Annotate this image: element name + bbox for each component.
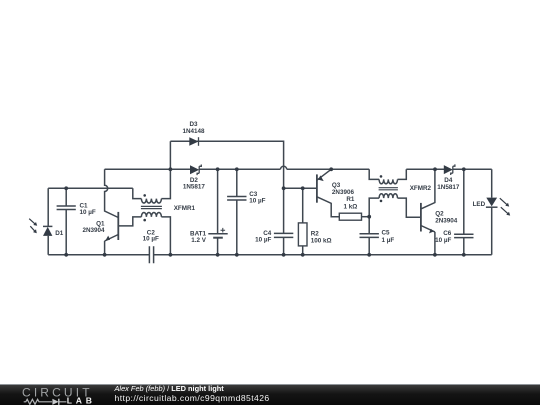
capacitor C2 — [143, 230, 159, 264]
wire XFMR2 bottom-right lead to Q2 base — [398, 198, 421, 217]
svg-text:Q3: Q3 — [332, 182, 341, 189]
wire bottom rail right of C2 — [154, 254, 492, 256]
wire Q1 collector vertical with hop — [105, 169, 119, 217]
wire main top horizontal left segment — [105, 168, 190, 170]
svg-text:10 µF: 10 µF — [80, 209, 96, 216]
capacitor C4 — [255, 230, 293, 244]
svg-text:Q2: Q2 — [435, 211, 444, 218]
svg-text:C5: C5 — [382, 230, 391, 237]
svg-text:1 µF: 1 µF — [382, 237, 395, 244]
wire Q1 emitter vertical — [104, 241, 106, 255]
diode D4 (schottky) — [437, 164, 460, 191]
svg-text:2N3904: 2N3904 — [82, 227, 105, 234]
LED — [473, 198, 511, 216]
wire XFMR2 top-right lead — [398, 169, 407, 179]
junction dots — [64, 167, 465, 256]
svg-text:10 µF: 10 µF — [435, 237, 451, 244]
wire bottom rail left of C2 — [48, 254, 149, 256]
svg-text:1N5817: 1N5817 — [183, 183, 206, 190]
wire Q2 collector — [421, 169, 435, 209]
capacitor C3 — [227, 191, 265, 205]
wire Q1 base — [118, 217, 141, 226]
wire XFMR1 top-right lead — [161, 141, 170, 198]
wire LED branch — [491, 169, 493, 255]
wire C3 branch — [236, 169, 238, 255]
photodiode D1 — [29, 219, 64, 237]
transistor Q1 — [82, 212, 118, 241]
wire right mid horizontal to Q3 base — [284, 187, 317, 189]
svg-text:10 µF: 10 µF — [143, 236, 159, 243]
capacitor C1 — [57, 203, 96, 217]
diode D2 (schottky) — [183, 165, 206, 191]
svg-text:XFMR2: XFMR2 — [410, 185, 432, 192]
wire C4 branch — [283, 188, 285, 255]
wire D3 top horizontal — [170, 141, 283, 188]
svg-text:1N5817: 1N5817 — [437, 184, 460, 191]
wire Q2 emitter vertical — [434, 232, 436, 255]
wire Q3 collector to R1 — [317, 197, 339, 217]
wire Q3 emitter junction — [317, 169, 331, 180]
wire XFMR2 bottom-left lead — [369, 198, 379, 217]
svg-text:2N3904: 2N3904 — [435, 218, 458, 225]
transformer XFMR1 — [141, 194, 196, 221]
resistor R2 — [298, 223, 331, 246]
transistor Q3 — [317, 174, 355, 202]
wire R1 right to node — [362, 216, 370, 218]
battery BAT1 — [190, 228, 228, 244]
wire XFMR2 top-left lead — [369, 169, 379, 179]
capacitor C6 — [435, 230, 473, 244]
diode D3 — [182, 121, 205, 146]
transformer XFMR2 — [379, 175, 432, 202]
wire main top horizontal right segment — [406, 168, 491, 170]
wire left rail vertical — [47, 188, 49, 255]
transistor Q2 — [421, 203, 458, 234]
resistor R1 — [339, 196, 361, 220]
svg-text:R1: R1 — [346, 196, 355, 203]
svg-text:1.2 V: 1.2 V — [191, 237, 207, 244]
svg-text:10 µF: 10 µF — [255, 237, 271, 244]
wire XFMR1 left lead down — [133, 188, 142, 198]
svg-text:10 µF: 10 µF — [249, 197, 265, 204]
svg-text:C6: C6 — [443, 230, 452, 237]
svg-text:D1: D1 — [55, 230, 64, 237]
svg-text:LED: LED — [473, 201, 486, 208]
wire top-left horizontal C1 wire — [48, 187, 133, 189]
wire XFMR1 bottom-right lead down — [161, 217, 170, 255]
wire C1 branch vertical — [65, 188, 67, 255]
svg-text:1 kΩ: 1 kΩ — [343, 203, 357, 210]
svg-text:1N4148: 1N4148 — [182, 128, 205, 135]
wire R2 branch — [302, 188, 304, 255]
wire BAT1 branch — [217, 169, 219, 255]
svg-text:XFMR1: XFMR1 — [174, 205, 196, 212]
capacitor C5 — [360, 230, 395, 244]
wire D2 cathode to hop to Q3 emitter — [199, 166, 369, 169]
wire C6 branch — [463, 169, 465, 255]
wire C5 branch — [368, 217, 370, 255]
svg-text:100 kΩ: 100 kΩ — [311, 237, 332, 244]
svg-text:LAB: LAB — [67, 395, 96, 405]
